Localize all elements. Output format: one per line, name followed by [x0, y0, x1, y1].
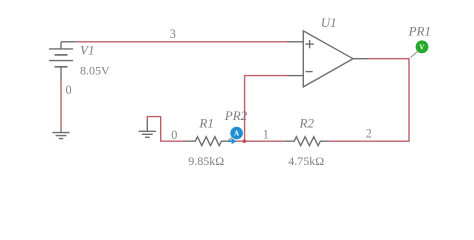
svg-text:PR1: PR1 — [408, 24, 431, 39]
ground (battery) — [52, 130, 69, 139]
svg-text:R2: R2 — [299, 116, 315, 131]
node junction (net 1) — [243, 139, 247, 143]
battery V1 — [49, 42, 75, 81]
svg-text:4.75kΩ: 4.75kΩ — [288, 154, 324, 168]
probe PR1 (voltage) — [411, 40, 429, 57]
svg-text:9.85kΩ: 9.85kΩ — [188, 154, 224, 168]
svg-text:V: V — [419, 44, 424, 51]
wire net 0: battery bottom to ground — [60, 81, 62, 130]
resistor R1 — [186, 137, 229, 146]
svg-text:0: 0 — [66, 83, 72, 97]
svg-text:V1: V1 — [80, 43, 94, 58]
wire net 2: R2 right, up, to op-amp output — [329, 59, 409, 142]
svg-text:U1: U1 — [321, 15, 337, 30]
wire net 3: battery top to op-amp + input — [74, 41, 287, 43]
svg-text:1: 1 — [263, 128, 269, 142]
probe PR2 (current) — [228, 127, 243, 145]
svg-text:A: A — [234, 130, 239, 137]
svg-text:0: 0 — [171, 128, 177, 142]
wire net 0: ground 2 riser and bottom run to R1 — [147, 117, 186, 142]
svg-text:PR2: PR2 — [224, 108, 248, 123]
ground (near R1) — [139, 121, 156, 138]
resistor R2 — [284, 137, 329, 146]
svg-text:R1: R1 — [198, 115, 213, 130]
wire net 1: junction up to op-amp - input — [245, 76, 287, 142]
wire net 1: R1 right to junction — [229, 140, 245, 142]
op-amp U1 — [287, 31, 368, 87]
svg-text:2: 2 — [366, 127, 372, 141]
svg-text:8.05V: 8.05V — [80, 64, 110, 78]
wire net 1: junction to R2 left — [245, 140, 285, 142]
svg-text:3: 3 — [170, 27, 176, 41]
